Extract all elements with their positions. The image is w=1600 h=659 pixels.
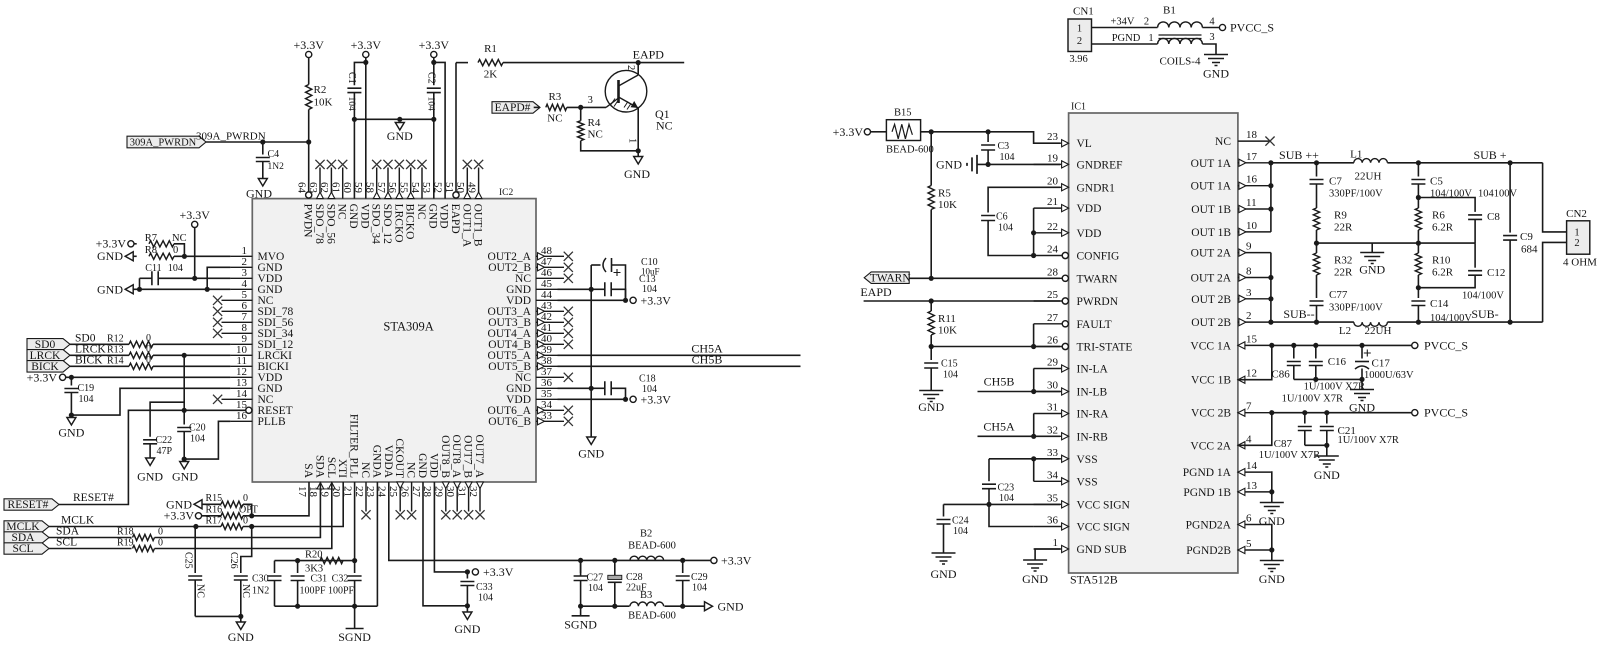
IC2 pin 57 SDO_12 (top) [387,168,389,199]
ground (GND SUB) [1023,560,1047,571]
svg-text:VDD: VDD [1077,203,1102,215]
wire R4 top [580,113,582,121]
svg-text:C20: C20 [189,423,206,434]
junction C20 tap on LRCK [182,353,187,358]
wire pin51 EAPD up [455,63,457,192]
junction C17 [1359,343,1364,348]
junction C21 [1324,410,1329,415]
svg-text:C77: C77 [1329,289,1348,301]
IC2 pin 37 NC stub [536,376,564,378]
IC2 pin 40 OUT4_B stub [536,343,564,345]
no-connect X pin 26 [407,510,416,519]
wire C3 bottom [987,150,989,164]
IC2 pin 29 OUT8_B (bottom) [445,482,447,512]
wire C27 bottom [580,581,582,607]
IC1 pin 18 NC stub [1238,140,1271,142]
svg-text:NC: NC [547,113,562,125]
wire GNDREF [977,163,1060,165]
svg-text:8: 8 [1246,266,1252,278]
svg-text:RESET#: RESET# [8,499,49,511]
ground arrow left [125,285,133,294]
svg-text:SCL: SCL [56,537,77,549]
svg-text:+3.3V: +3.3V [483,565,514,579]
IC2 pin 12 VDD stub [230,376,252,378]
wire C11 left down [139,278,141,289]
junction C29 top [680,558,685,563]
wire pin20 to C6 [988,187,1060,212]
inductor L1 [1354,159,1388,163]
wire RESET# to pin15 [59,410,246,504]
IC2 pin 10 LRCKI stub [230,354,252,356]
svg-text:C11: C11 [145,263,161,274]
svg-text:PGND2B: PGND2B [1186,545,1231,557]
svg-text:1N2: 1N2 [268,162,285,172]
svg-text:GND: GND [454,622,480,636]
IC2 pin 22 NC (bottom) [365,482,367,512]
net tag LRCK [27,350,70,362]
wire pin6 to pin5 [1270,525,1273,551]
wire R8 to pin1 MVO [174,255,230,257]
wire CH5A [558,354,801,356]
wire R4 top2 [580,107,582,113]
IC1 pin 6 PGND2A stub [1238,524,1271,526]
svg-text:OUT8_B: OUT8_B [439,435,451,478]
IC1 pin 26 TRI-STATE stub [1034,346,1063,348]
junction C1 branch [363,60,368,65]
capacitor C26 [234,576,248,580]
junction R7/R8 [182,254,187,259]
wire C5 bottom [1417,184,1419,208]
svg-text:C25: C25 [182,552,193,569]
svg-text:1000U/63V: 1000U/63V [1364,370,1414,381]
svg-text:VCC 1A: VCC 1A [1190,340,1231,352]
svg-text:GND: GND [1022,572,1048,586]
ground (bus) [587,437,596,445]
svg-text:OUT1_A: OUT1_A [460,204,472,248]
svg-text:104: 104 [999,493,1014,504]
svg-text:GND: GND [228,630,254,644]
wire C2 bottom [433,93,435,120]
wire C25/C26 gnd rail [195,615,241,617]
svg-text:SDA: SDA [313,455,325,479]
svg-text:C14: C14 [1430,298,1449,310]
IC2 pin 44 VDD stub [536,299,558,301]
wire to C18 [591,387,605,389]
wire CH5A to pin32 IN-RB [978,435,1061,437]
svg-text:STA309A: STA309A [383,320,433,334]
wire R18 to pin18 SDA [155,482,321,538]
svg-text:100PF: 100PF [328,586,355,597]
svg-text:104: 104 [79,394,94,405]
svg-text:330PF/100V: 330PF/100V [1329,303,1383,314]
capacitor C10 [603,258,606,272]
svg-text:31: 31 [1047,402,1058,414]
svg-text:17: 17 [296,486,308,498]
IC2 pin 8 SDI_34 stub [222,332,253,334]
svg-text:R9: R9 [1334,210,1347,222]
IC1 pin 28 TWARN stub [1034,277,1063,279]
svg-text:SGND: SGND [564,617,597,631]
svg-text:GNDR1: GNDR1 [1077,182,1116,194]
svg-text:2K: 2K [484,69,498,81]
wire cap gnd rail 2 [1305,444,1327,446]
wire tag to R3 [534,106,540,108]
wire R5 bottom [930,210,932,279]
svg-text:GND: GND [172,470,198,484]
svg-text:CH5B: CH5B [984,375,1015,389]
IC1 pin 32 IN-RB stub [1034,435,1062,437]
resistor R15 [221,501,243,507]
wire to pin52 VDD [434,62,445,198]
wire gnd stem 2 [1326,445,1328,456]
wire SD0 to R12 [70,343,129,345]
svg-text:SUB +: SUB + [1473,148,1506,162]
IC1 pin 31 IN-RA stub [1034,413,1062,415]
wire rail to pin60 GND [353,119,355,198]
IC2 pin 38 OUT5_B stub [536,365,558,367]
IC2 pin 26 NC (bottom) [411,482,413,512]
wire SUB- rail [1387,321,1542,323]
wire to pin4 VCC2A [1238,413,1272,446]
connector CN2 [1567,221,1590,254]
power terminal +3.3V (VDDA rail) [711,557,717,563]
capacitor C27 [574,576,588,581]
junction C5 [1416,160,1421,165]
junction R11 [929,298,934,303]
power terminal PVCC_S (CN1) [1219,24,1225,30]
ground (C1/C2 rail) [395,123,404,131]
junction C25 tap [193,524,198,529]
IC2 pin 61 NC (top) [342,168,344,199]
wire R4 bottom to emitter [581,141,639,151]
svg-text:OUT7_A: OUT7_A [473,435,485,479]
IC1 pin 2 OUT 2B stub [1238,321,1271,323]
wire VL rail to pin23 [921,132,1060,143]
resistor R11 [928,311,934,335]
svg-text:22UH: 22UH [1355,171,1382,183]
svg-text:10: 10 [1246,220,1258,232]
svg-text:GND SUB: GND SUB [1077,544,1127,556]
svg-text:OUT7_B: OUT7_B [462,435,474,478]
wire R15 to node [243,504,252,516]
wire C17 top [1361,345,1363,358]
no-connect X pin 57 [383,160,392,169]
no-connect X pin 46 [564,274,573,283]
wire pin27 GND rail [423,482,467,606]
junction +3.3V pin44 [623,298,628,303]
net tag TWARN [864,272,909,284]
IC1 pin 11 OUT 1B stub [1238,208,1271,210]
resistor R10 [1415,253,1421,275]
wire SGND stem [354,606,356,628]
wire C11 to pin3 VDD [158,277,230,279]
no-connect X pin 7 [213,318,222,327]
wire pin27 to pin26 node [1033,324,1035,347]
svg-text:36: 36 [1047,515,1059,527]
svg-text:FILTER_PLL: FILTER_PLL [348,414,360,478]
capacitor C15 [924,363,938,368]
IC2 pin 6 SDI_78 stub [222,310,253,312]
wire R13 to pin10 [153,354,230,356]
wire C24 top [943,504,945,516]
svg-text:VCC SIGN: VCC SIGN [1077,499,1131,511]
power terminal +3.3V (C2) [431,51,437,57]
svg-text:+3.3V: +3.3V [293,38,324,52]
wire R17/MCLK to pin20 XTI [243,482,343,527]
svg-text:12: 12 [1246,368,1257,380]
wire R3 to Q1 base [567,106,606,108]
svg-text:B1: B1 [1163,5,1176,17]
wire gnd rail under C1/C2 [354,118,433,120]
svg-text:BICKO: BICKO [404,204,416,240]
wire to C1 [354,62,365,85]
wire C4 to ground [262,162,264,179]
svg-text:BEAD-600: BEAD-600 [628,541,676,552]
svg-text:10K: 10K [314,97,333,109]
IC2 pin 33 OUT6_B stub [536,420,564,422]
wire TRI-STATE to pin26 [931,346,1060,348]
IC1 pin 33 VSS stub [1034,458,1062,460]
wire to R1 [456,62,468,64]
svg-text:OUT1_B: OUT1_B [472,204,484,247]
no-connect X pin 49 [474,160,483,169]
wire PGND [1092,43,1158,45]
capacitor C6 [981,216,995,221]
IC2 pin 3 VDD stub [230,277,252,279]
junction C86 [1291,343,1296,348]
svg-text:2: 2 [1246,310,1252,322]
svg-text:21: 21 [1047,196,1058,208]
wire C86 bottom [1293,366,1295,380]
junction C77 [1314,320,1319,325]
IC2 pin 62 SDO_56 (top) [330,168,332,199]
resistor R8 [149,253,174,259]
IC2 pin 50 OUT1_A (top) [466,168,468,199]
wire GND bus vertical [590,265,592,437]
wire pin36 ext [558,387,592,389]
wire CH5B to pin30 IN-LB [978,391,1061,393]
wire rail to pin53 GND [433,119,435,198]
svg-text:IN-RB: IN-RB [1077,431,1109,443]
wire to ground [637,151,639,157]
svg-text:2: 2 [1144,17,1149,28]
no-connect X pin 61 [338,160,347,169]
svg-text:SCL: SCL [325,457,337,478]
wire PGND2 stem [1271,550,1273,561]
IC2 pin 55 BICKO (top) [410,168,412,199]
wire pin28 VDD to +3.3V [434,482,467,572]
junction C20/PLLB [182,457,187,462]
svg-text:BEAD-600: BEAD-600 [628,611,676,622]
capacitor C11 plates [152,271,158,285]
capacitor C31 [291,576,305,581]
svg-text:GND: GND [137,470,163,484]
IC1 pin 27 FAULT stub [1034,323,1063,325]
wire +34V [1092,27,1158,29]
IC1 pin 23 VL stub [1034,142,1062,144]
svg-text:GND: GND [918,400,944,414]
IC2 pin 14 NC stub [222,398,253,400]
svg-text:1U/100V X7R: 1U/100V X7R [1304,381,1365,392]
junction C2 bottom / pin53 [431,117,436,122]
wire C3 top [987,132,989,142]
junction R15/R16 [249,513,254,518]
wire VCC SIGN drop [989,504,1034,526]
junction C31/R20 [295,558,300,563]
capacitor C1 [347,88,361,92]
svg-text:18: 18 [1246,129,1258,141]
power terminal +3.3V (C33) [472,569,478,575]
transistor Q1 (NPN) [605,70,647,112]
svg-text:CN2: CN2 [1566,208,1587,220]
svg-text:24: 24 [1047,244,1059,256]
power terminal +3.3V (R2) [306,51,312,57]
wire SUB-- rail left [1271,321,1354,323]
wire +3.3V to pin12 VDD [66,376,231,378]
ground arrow right [705,602,713,611]
IC1 pin 7 VCC 2B stub [1238,412,1271,414]
IC2 pin 34 OUT6_A stub [536,409,564,411]
capacitor C21 [1320,427,1334,431]
IC2 pin 58 SDO_34 (top) [376,168,378,199]
ground (VCC1 caps) [1350,390,1374,401]
svg-text:100PF: 100PF [300,586,327,597]
svg-text:0: 0 [158,538,163,549]
resistor R6 [1415,208,1421,230]
svg-text:1: 1 [627,138,638,143]
no-connect X pin 43 [564,307,573,316]
junction Q1 collector [636,60,641,65]
wire cap gnd rail [1294,378,1362,380]
svg-text:RESET#: RESET# [73,492,114,504]
svg-text:R11: R11 [938,313,956,325]
svg-text:R16: R16 [206,505,223,516]
svg-text:FAULT: FAULT [1077,319,1112,331]
wire filter top rail [275,560,355,562]
svg-text:PGND2A: PGND2A [1186,520,1232,532]
junction pin11 [1268,206,1273,211]
svg-text:R32: R32 [1334,255,1352,267]
svg-text:GND: GND [416,453,428,478]
junction pin3 [1268,296,1273,301]
svg-text:C12: C12 [1487,267,1505,279]
IC1 pin 9 OUT 2A stub [1238,252,1271,254]
svg-text:104: 104 [478,593,493,604]
capacitor C14 [1411,301,1425,306]
wire C12 bottom [1418,275,1475,288]
svg-text:+34V: +34V [1110,17,1134,28]
junction XTI node [249,524,254,529]
no-connect X pin 31 [464,510,473,519]
svg-text:OUT 1B: OUT 1B [1191,204,1231,216]
svg-text:NC: NC [359,462,371,478]
svg-text:PVCC_S: PVCC_S [1424,338,1468,352]
svg-text:R3: R3 [548,91,561,103]
wire R16 to pin17 SA [243,482,309,516]
IC2 pin 43 OUT3_A stub [536,310,564,312]
svg-text:33: 33 [541,410,553,422]
svg-text:+3.3V: +3.3V [721,553,752,567]
wire +3.3V down to pin3 [194,228,196,279]
capacitor C17 [1355,361,1369,363]
wire R10 top [1417,243,1419,253]
svg-text:R12: R12 [107,333,124,344]
svg-text:4: 4 [1246,433,1252,445]
wire pin1 GND SUB [1035,549,1060,560]
svg-text:+3.3V: +3.3V [351,38,382,52]
svg-text:CH5B: CH5B [692,352,723,366]
wire gnd stem [1371,243,1373,252]
wire pin16 PLLB strap [184,421,230,459]
svg-text:3.96: 3.96 [1069,54,1087,65]
svg-text:C9: C9 [1520,231,1533,243]
svg-text:OPT: OPT [239,505,258,516]
svg-text:R17: R17 [206,515,223,526]
svg-text:C16: C16 [1328,356,1347,368]
svg-text:C86: C86 [1271,369,1290,381]
svg-text:CN1: CN1 [1073,6,1094,18]
svg-text:R7: R7 [145,233,157,244]
wire +3.3V to R2 [308,58,310,85]
junction C7 [1314,160,1319,165]
svg-text:104: 104 [588,583,603,594]
IC2 pin 7 SDI_56 stub [222,321,253,323]
inductor B2 BEAD-600 [630,556,664,560]
capacitor C13 plates [605,282,611,296]
no-connect X pin 29 [441,510,450,519]
svg-text:C2: C2 [426,72,437,84]
resistor R18 [133,534,155,540]
ground (PGND1) [1260,503,1284,514]
IC2 pin 25 CKOUT (bottom) [399,482,401,512]
svg-text:104: 104 [190,434,205,445]
junction TRI-STATE [929,344,934,349]
svg-text:104: 104 [1000,152,1015,163]
svg-text:STA512B: STA512B [1070,573,1118,587]
svg-text:15: 15 [1246,333,1258,345]
svg-text:0: 0 [158,527,163,538]
IC1 pin 17 OUT 1A stub [1238,162,1271,164]
svg-text:B2: B2 [640,529,652,540]
svg-text:PGND 1A: PGND 1A [1183,467,1232,479]
IC1 pin 36 VCC SIGN stub [1034,526,1062,528]
svg-text:OUT6_B: OUT6_B [488,416,531,428]
no-connect X pin 40 [564,340,573,349]
svg-text:SDO_78: SDO_78 [313,204,325,245]
svg-text:22: 22 [1047,221,1058,233]
junction C87 [1302,410,1307,415]
svg-text:0: 0 [146,355,151,366]
wire CH5B [558,365,801,367]
svg-text:NC: NC [240,584,251,598]
wire to pin31 IN-RA [1033,414,1035,437]
capacitor C30 [268,576,282,581]
resistor R16 [221,513,243,519]
junction gnd tap [397,117,402,122]
wire SUB+ to CN2 pin1 [1543,163,1567,232]
junction pin36 [589,386,594,391]
IC2 pin 35 VDD stub [536,398,558,400]
ground (PGND2) [1260,561,1284,572]
resistor R12 [129,341,153,347]
connector CN1 [1068,19,1092,52]
net tag BICK [27,361,70,373]
svg-text:+3.3V: +3.3V [641,393,672,407]
no-connect X pin 5 [213,296,222,305]
wire C28 top [614,560,616,575]
IC2 pin 30 OUT8_A (bottom) [456,482,458,512]
svg-text:+3.3V: +3.3V [641,294,672,308]
